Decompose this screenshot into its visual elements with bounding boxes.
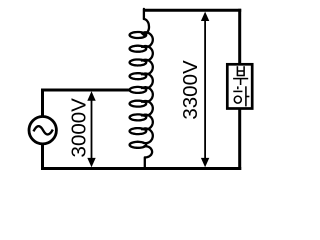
a tick (246, 96, 250, 98)
arrow 3300V bottom head (201, 158, 209, 167)
arrow 3000V bottom head (87, 158, 95, 167)
arrow 3000V top head (87, 91, 95, 100)
load label hangul BU: bat-chim bieup left vertical (233, 66, 249, 106)
arrow 3000V shaft (91, 98, 93, 161)
svg-text:3000V: 3000V (68, 98, 91, 158)
wire left lower: AC source down to bottom wire (41, 144, 44, 170)
u stem (240, 79, 242, 85)
wire right lower: load box to bottom wire (238, 108, 241, 170)
load box (227, 64, 252, 108)
AC source V1 circle (29, 117, 56, 144)
bieup middle bar (237, 70, 244, 72)
bieup right vertical (243, 66, 245, 75)
arrow 3300V top head (201, 12, 209, 21)
wire right upper: top corner down to load box (238, 9, 241, 65)
wire left upper: tap corner down to AC source (41, 89, 44, 118)
arrow 3300V shaft (204, 19, 206, 160)
bieup bottom bar (237, 75, 245, 77)
hieut circle (234, 96, 241, 103)
a (vowel) vertical (245, 86, 247, 106)
u (vowel) horizontal bar (233, 78, 248, 80)
load label hangul HA: hieut top tick (237, 86, 239, 89)
svg-text:3300V: 3300V (179, 60, 202, 120)
inductor L1 (autotransformer coil) (130, 9, 153, 169)
wire tap: left wire to coil tap (41, 89, 129, 92)
AC source sine wave (34, 126, 53, 134)
hieut bar (233, 90, 242, 92)
wire top: coil top to right wire (144, 9, 241, 12)
wire bottom: left wire to right wire (41, 167, 241, 170)
